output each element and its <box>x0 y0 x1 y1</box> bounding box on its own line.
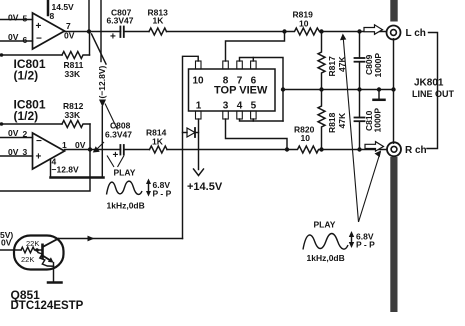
arrowhead at node B <box>93 146 100 152</box>
resistor R819 <box>285 10 322 36</box>
junction left edge <box>0 122 3 126</box>
node R818 bottom junction <box>319 147 323 151</box>
panel bar bottom <box>390 157 397 312</box>
svg-text:P - P: P - P <box>153 189 172 199</box>
svg-text:1K: 1K <box>152 137 164 147</box>
svg-text:1: 1 <box>62 140 67 150</box>
svg-text:10: 10 <box>299 19 309 29</box>
wire pin5 <box>0 19 33 21</box>
op-amp U1a IC801 (1/2) <box>33 13 65 49</box>
resistor R812 <box>62 121 90 128</box>
capacitor C810 <box>355 90 383 150</box>
pin stub 10 <box>196 61 202 69</box>
pin stub 8 <box>223 61 229 69</box>
node jack bus junction <box>391 87 395 91</box>
node C809 top junction <box>357 29 361 33</box>
wire feedback lower <box>2 54 63 56</box>
capacitor C809 <box>355 32 384 90</box>
svg-text:R817: R817 <box>327 56 337 77</box>
resistor R818 vertical <box>318 90 347 150</box>
wire output pin7 <box>65 31 121 33</box>
arrow into L jack <box>364 25 383 35</box>
resistor R811 <box>62 52 90 59</box>
svg-text:7: 7 <box>237 76 243 87</box>
svg-text:10: 10 <box>193 76 205 87</box>
svg-text:DTC124ESTP: DTC124ESTP <box>11 300 84 312</box>
pin stub 5 <box>251 111 257 119</box>
svg-text:22K: 22K <box>21 255 34 264</box>
svg-text:0V: 0V <box>8 13 19 23</box>
node ground stub junction <box>377 87 381 91</box>
svg-text:1000P: 1000P <box>373 108 383 133</box>
double arrow 6.8V right <box>349 231 354 248</box>
leader diagonal mid <box>105 104 118 130</box>
pin stub 4 <box>237 111 243 119</box>
svg-text:5: 5 <box>23 14 28 24</box>
svg-text:3: 3 <box>23 147 28 157</box>
op-amp U1b IC801 (1/2) <box>33 133 65 169</box>
wire feedback vertical <box>89 32 91 56</box>
diode D801 <box>183 128 199 137</box>
resistor R817 vertical <box>318 32 347 90</box>
svg-text:22K: 22K <box>26 239 39 248</box>
svg-text:L ch: L ch <box>406 28 426 39</box>
svg-text:PLAY: PLAY <box>314 220 336 230</box>
svg-text:+14.5V: +14.5V <box>187 181 223 193</box>
resistor 22K series <box>21 247 42 253</box>
arrowhead on collector wire <box>88 236 95 242</box>
svg-text:(1/2): (1/2) <box>14 109 39 123</box>
resistor R814 <box>146 128 167 154</box>
junction left edge <box>0 53 3 57</box>
wire feedback to output <box>89 124 91 150</box>
svg-text:10: 10 <box>301 133 311 143</box>
svg-text:(1/2): (1/2) <box>14 69 39 83</box>
svg-text:−: − <box>36 136 42 147</box>
PLAY leader right <box>118 156 125 168</box>
collector line <box>43 239 59 247</box>
transistor Q851 envelope <box>14 236 64 270</box>
wire after C808 <box>124 149 150 151</box>
resistor R820 <box>287 125 322 154</box>
svg-text:0V: 0V <box>8 128 19 138</box>
resistor R813 <box>148 8 169 36</box>
callout to R arrow <box>359 152 381 223</box>
node R junction <box>285 147 289 151</box>
svg-text:6.3V47: 6.3V47 <box>105 130 132 140</box>
pin stub 3 <box>223 111 229 119</box>
svg-text:1K: 1K <box>153 16 165 26</box>
transistor base bar <box>41 244 44 260</box>
svg-text:(−12.8V): (−12.8V) <box>97 65 107 98</box>
capacitor C808 <box>105 121 132 162</box>
arrow into R jack <box>365 142 384 152</box>
wire R814 to node <box>167 149 287 151</box>
IC U801 body <box>189 69 276 111</box>
wire pin10 to collector line <box>183 56 199 238</box>
wire pins 4-5 tie <box>240 119 284 121</box>
jack R <box>387 142 401 156</box>
wire -12.8V supply horizontal <box>51 176 104 179</box>
wire R813 to node <box>167 31 285 33</box>
node R817 top junction <box>319 29 323 33</box>
pin8 supply wire <box>47 0 50 15</box>
ground <box>374 90 385 100</box>
arrow down on -12.8V rail <box>99 100 106 108</box>
jack L <box>387 26 401 40</box>
svg-text:P - P: P - P <box>356 240 375 250</box>
node ground bus junction <box>281 87 285 91</box>
svg-text:33K: 33K <box>65 69 81 79</box>
wire pin4 <box>50 159 52 178</box>
collector wire to IC pin10 <box>58 238 183 240</box>
wire pins 7-6 tie <box>240 58 284 122</box>
svg-text:4: 4 <box>237 101 243 112</box>
wire pin2 <box>0 137 33 139</box>
wire base input <box>0 249 21 251</box>
double arrow 6.8V left <box>146 179 151 197</box>
wire pin3 to R node <box>226 119 288 150</box>
svg-text:8: 8 <box>50 11 55 21</box>
pin stub 7 <box>237 61 243 69</box>
wire -12.8V rail upper <box>100 0 102 62</box>
emitter arrowhead <box>48 257 54 262</box>
svg-text:7: 7 <box>66 21 71 31</box>
svg-text:−12.8V: −12.8V <box>52 165 80 175</box>
wire output return below <box>0 150 90 192</box>
wire pin1 +14.5V <box>198 119 200 170</box>
svg-text:1kHz,0dB: 1kHz,0dB <box>107 201 145 211</box>
svg-text:0V: 0V <box>8 32 19 42</box>
pin stub 6 <box>251 61 257 69</box>
svg-text:6.3V47: 6.3V47 <box>107 16 134 26</box>
wire after C807 <box>124 31 149 33</box>
node B junction <box>88 147 92 151</box>
arrowhead at L arrow <box>340 34 346 41</box>
callout long to L arrow <box>343 35 359 222</box>
svg-text:−: − <box>36 33 42 44</box>
svg-text:+: + <box>36 152 42 163</box>
node A junction <box>87 29 91 33</box>
svg-text:1000P: 1000P <box>373 53 383 78</box>
wire R819 to jack <box>322 31 388 33</box>
ground bus wire <box>283 89 394 91</box>
wire output pin1 <box>65 149 121 151</box>
resistor 22K shunt <box>37 250 54 266</box>
wire vertical to node A <box>88 0 90 32</box>
svg-text:3: 3 <box>223 101 229 112</box>
svg-text:LINE OUT: LINE OUT <box>412 89 455 99</box>
wire pin6 <box>0 40 33 42</box>
wire bus to jack R <box>393 90 395 144</box>
arrowhead at R arrow <box>375 151 382 158</box>
svg-text:6: 6 <box>23 35 28 45</box>
svg-text:0V: 0V <box>1 238 12 248</box>
panel bar top <box>390 0 397 22</box>
wire feedback left <box>2 123 63 125</box>
svg-text:47K: 47K <box>337 112 347 128</box>
svg-text:2: 2 <box>23 129 28 139</box>
node C810 bottom junction <box>357 147 361 151</box>
wire -12.8V rail lower <box>101 107 103 178</box>
wire pin3 <box>0 155 33 157</box>
ground Q851 <box>48 281 62 284</box>
sine wave left <box>107 181 143 194</box>
svg-text:1kHz,0dB: 1kHz,0dB <box>307 253 345 263</box>
svg-text:+: + <box>113 150 119 161</box>
wire pin5 drop <box>252 119 254 121</box>
svg-text:8: 8 <box>223 76 229 87</box>
svg-text:14.5V: 14.5V <box>52 2 75 12</box>
pin stub 1 <box>196 111 202 119</box>
svg-text:+: + <box>110 32 116 43</box>
bracket JK801 <box>427 33 438 149</box>
sine wave right <box>303 234 348 250</box>
svg-text:PLAY: PLAY <box>114 168 136 178</box>
emitter line with arrow <box>43 256 51 261</box>
wire jack L to bus <box>393 39 395 90</box>
svg-text:R ch: R ch <box>405 145 427 156</box>
node L junction <box>282 29 286 33</box>
capacitor C807 <box>107 8 134 43</box>
wire pin8 to L node <box>226 32 285 62</box>
node C810 mid junction <box>357 87 361 91</box>
svg-text:33K: 33K <box>65 110 81 120</box>
emitter down wire <box>53 263 55 282</box>
svg-text:6: 6 <box>251 76 257 87</box>
svg-text:JK801: JK801 <box>414 78 444 89</box>
svg-text:+: + <box>36 21 42 32</box>
node base junction <box>35 248 39 252</box>
node R818 mid junction <box>319 87 323 91</box>
PLAY leader left <box>107 156 114 168</box>
svg-text:R818: R818 <box>327 112 337 133</box>
wire R820 to jack <box>322 149 388 151</box>
leader arrow to node B <box>96 142 104 150</box>
leader diagonal from node A <box>92 34 107 64</box>
svg-text:0V: 0V <box>75 140 86 150</box>
wire pin6 drop <box>252 58 254 62</box>
svg-text:0V: 0V <box>8 147 19 157</box>
svg-text:1: 1 <box>196 101 202 112</box>
svg-text:5: 5 <box>251 101 257 112</box>
arrow +14.5V <box>194 169 204 176</box>
